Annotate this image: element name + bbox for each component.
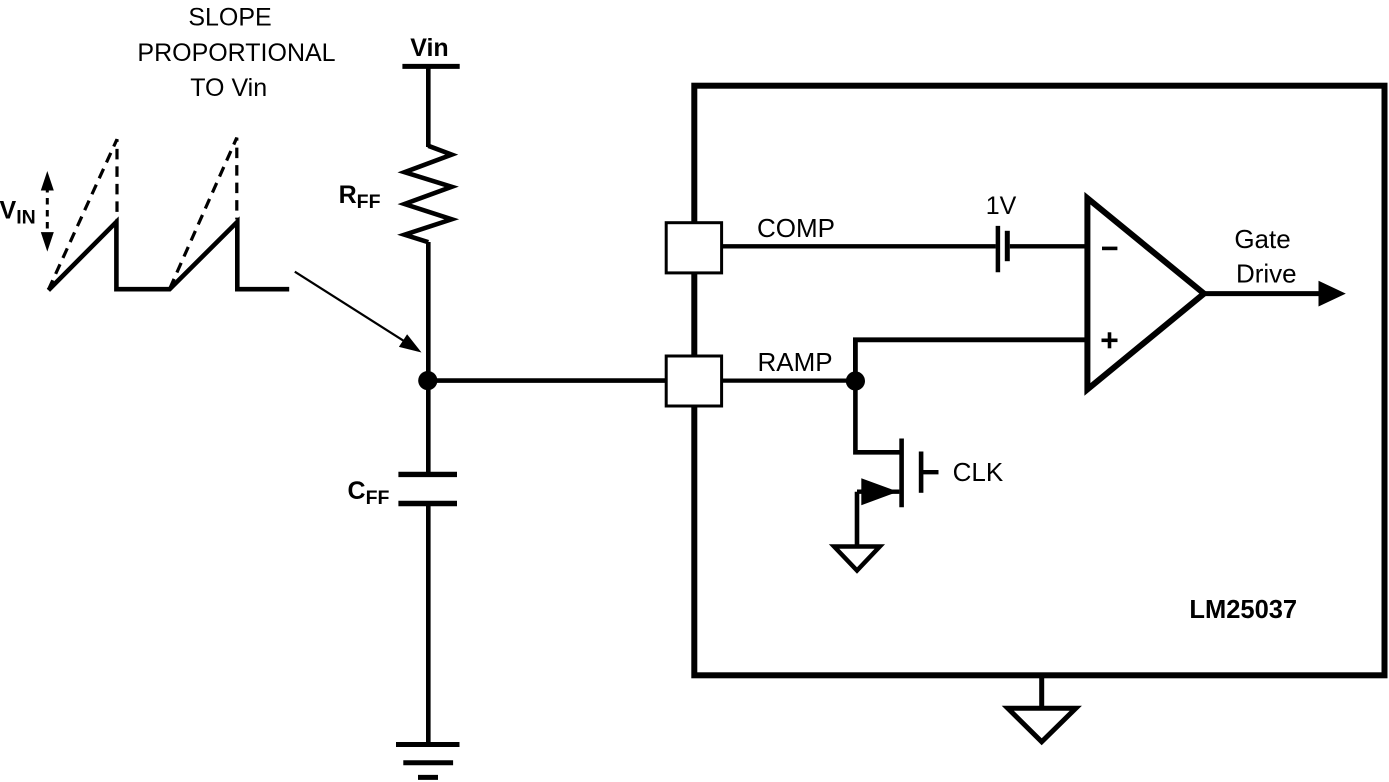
COMP pin square — [666, 223, 721, 273]
ground chassis at MOSFET — [834, 547, 880, 571]
wire node to plus input — [855, 340, 1085, 381]
svg-text:PROPORTIONAL: PROPORTIONAL — [137, 39, 335, 67]
ground earth under CFF — [396, 745, 460, 778]
wire COMP pin to 1V source — [721, 244, 996, 248]
MOSFET source arrow — [861, 478, 898, 505]
op-amp comparator U1 — [1087, 198, 1204, 389]
wire node to RAMP pin — [428, 378, 668, 383]
IC box LM25037 — [694, 86, 1384, 676]
battery 1V — [998, 226, 1007, 272]
RAMP junction node dot — [846, 371, 865, 390]
pointer arrow from waveform to node — [295, 272, 422, 353]
junction node dot — [418, 371, 437, 390]
label Gate Drive — [1234, 224, 1296, 288]
RAMP pin square — [666, 356, 721, 406]
wire 1V to op-amp minus — [1010, 244, 1085, 248]
minus input symbol — [1102, 247, 1117, 251]
wire RAMP pin to node — [721, 378, 855, 382]
capacitor CFF — [398, 474, 457, 503]
MOSFET channel bar — [899, 439, 904, 508]
wire IC box to ground — [1039, 675, 1044, 708]
resistor RFF — [405, 146, 452, 242]
svg-text:CLK: CLK — [953, 457, 1004, 487]
svg-text:SLOPE: SLOPE — [188, 4, 271, 32]
plus input symbol — [1102, 332, 1118, 348]
wire node to MOSFET drain — [855, 381, 899, 452]
MOSFET gate lead — [921, 470, 938, 474]
output wire Gate Drive — [1204, 291, 1320, 296]
wire CFF to ground — [426, 504, 431, 745]
svg-text:LM25037: LM25037 — [1189, 596, 1297, 624]
sawtooth waveform dashed envelope — [48, 138, 236, 290]
wire RFF to node to CFF — [426, 242, 431, 475]
wire Vin to RFF — [426, 66, 431, 147]
svg-text:TO Vin: TO Vin — [190, 74, 267, 102]
MOSFET gate bar — [919, 452, 924, 493]
annotation: SLOPE PROPORTIONAL TO Vin — [137, 4, 335, 103]
ground chassis below IC box — [1008, 708, 1076, 742]
sawtooth waveform solid — [48, 222, 289, 290]
svg-text:RAMP: RAMP — [758, 347, 833, 377]
MOSFET source lead — [857, 490, 899, 494]
output arrowhead — [1319, 281, 1346, 307]
label VIN — [0, 197, 36, 229]
svg-text:Drive: Drive — [1236, 258, 1297, 288]
svg-text:Vin: Vin — [410, 34, 448, 62]
svg-text:COMP: COMP — [757, 213, 835, 243]
wire source to ground — [855, 492, 860, 546]
Vin supply rail bar — [402, 64, 459, 69]
dimension arrow VIN — [41, 171, 54, 252]
svg-text:1V: 1V — [986, 192, 1017, 220]
svg-text:Gate: Gate — [1234, 224, 1290, 254]
